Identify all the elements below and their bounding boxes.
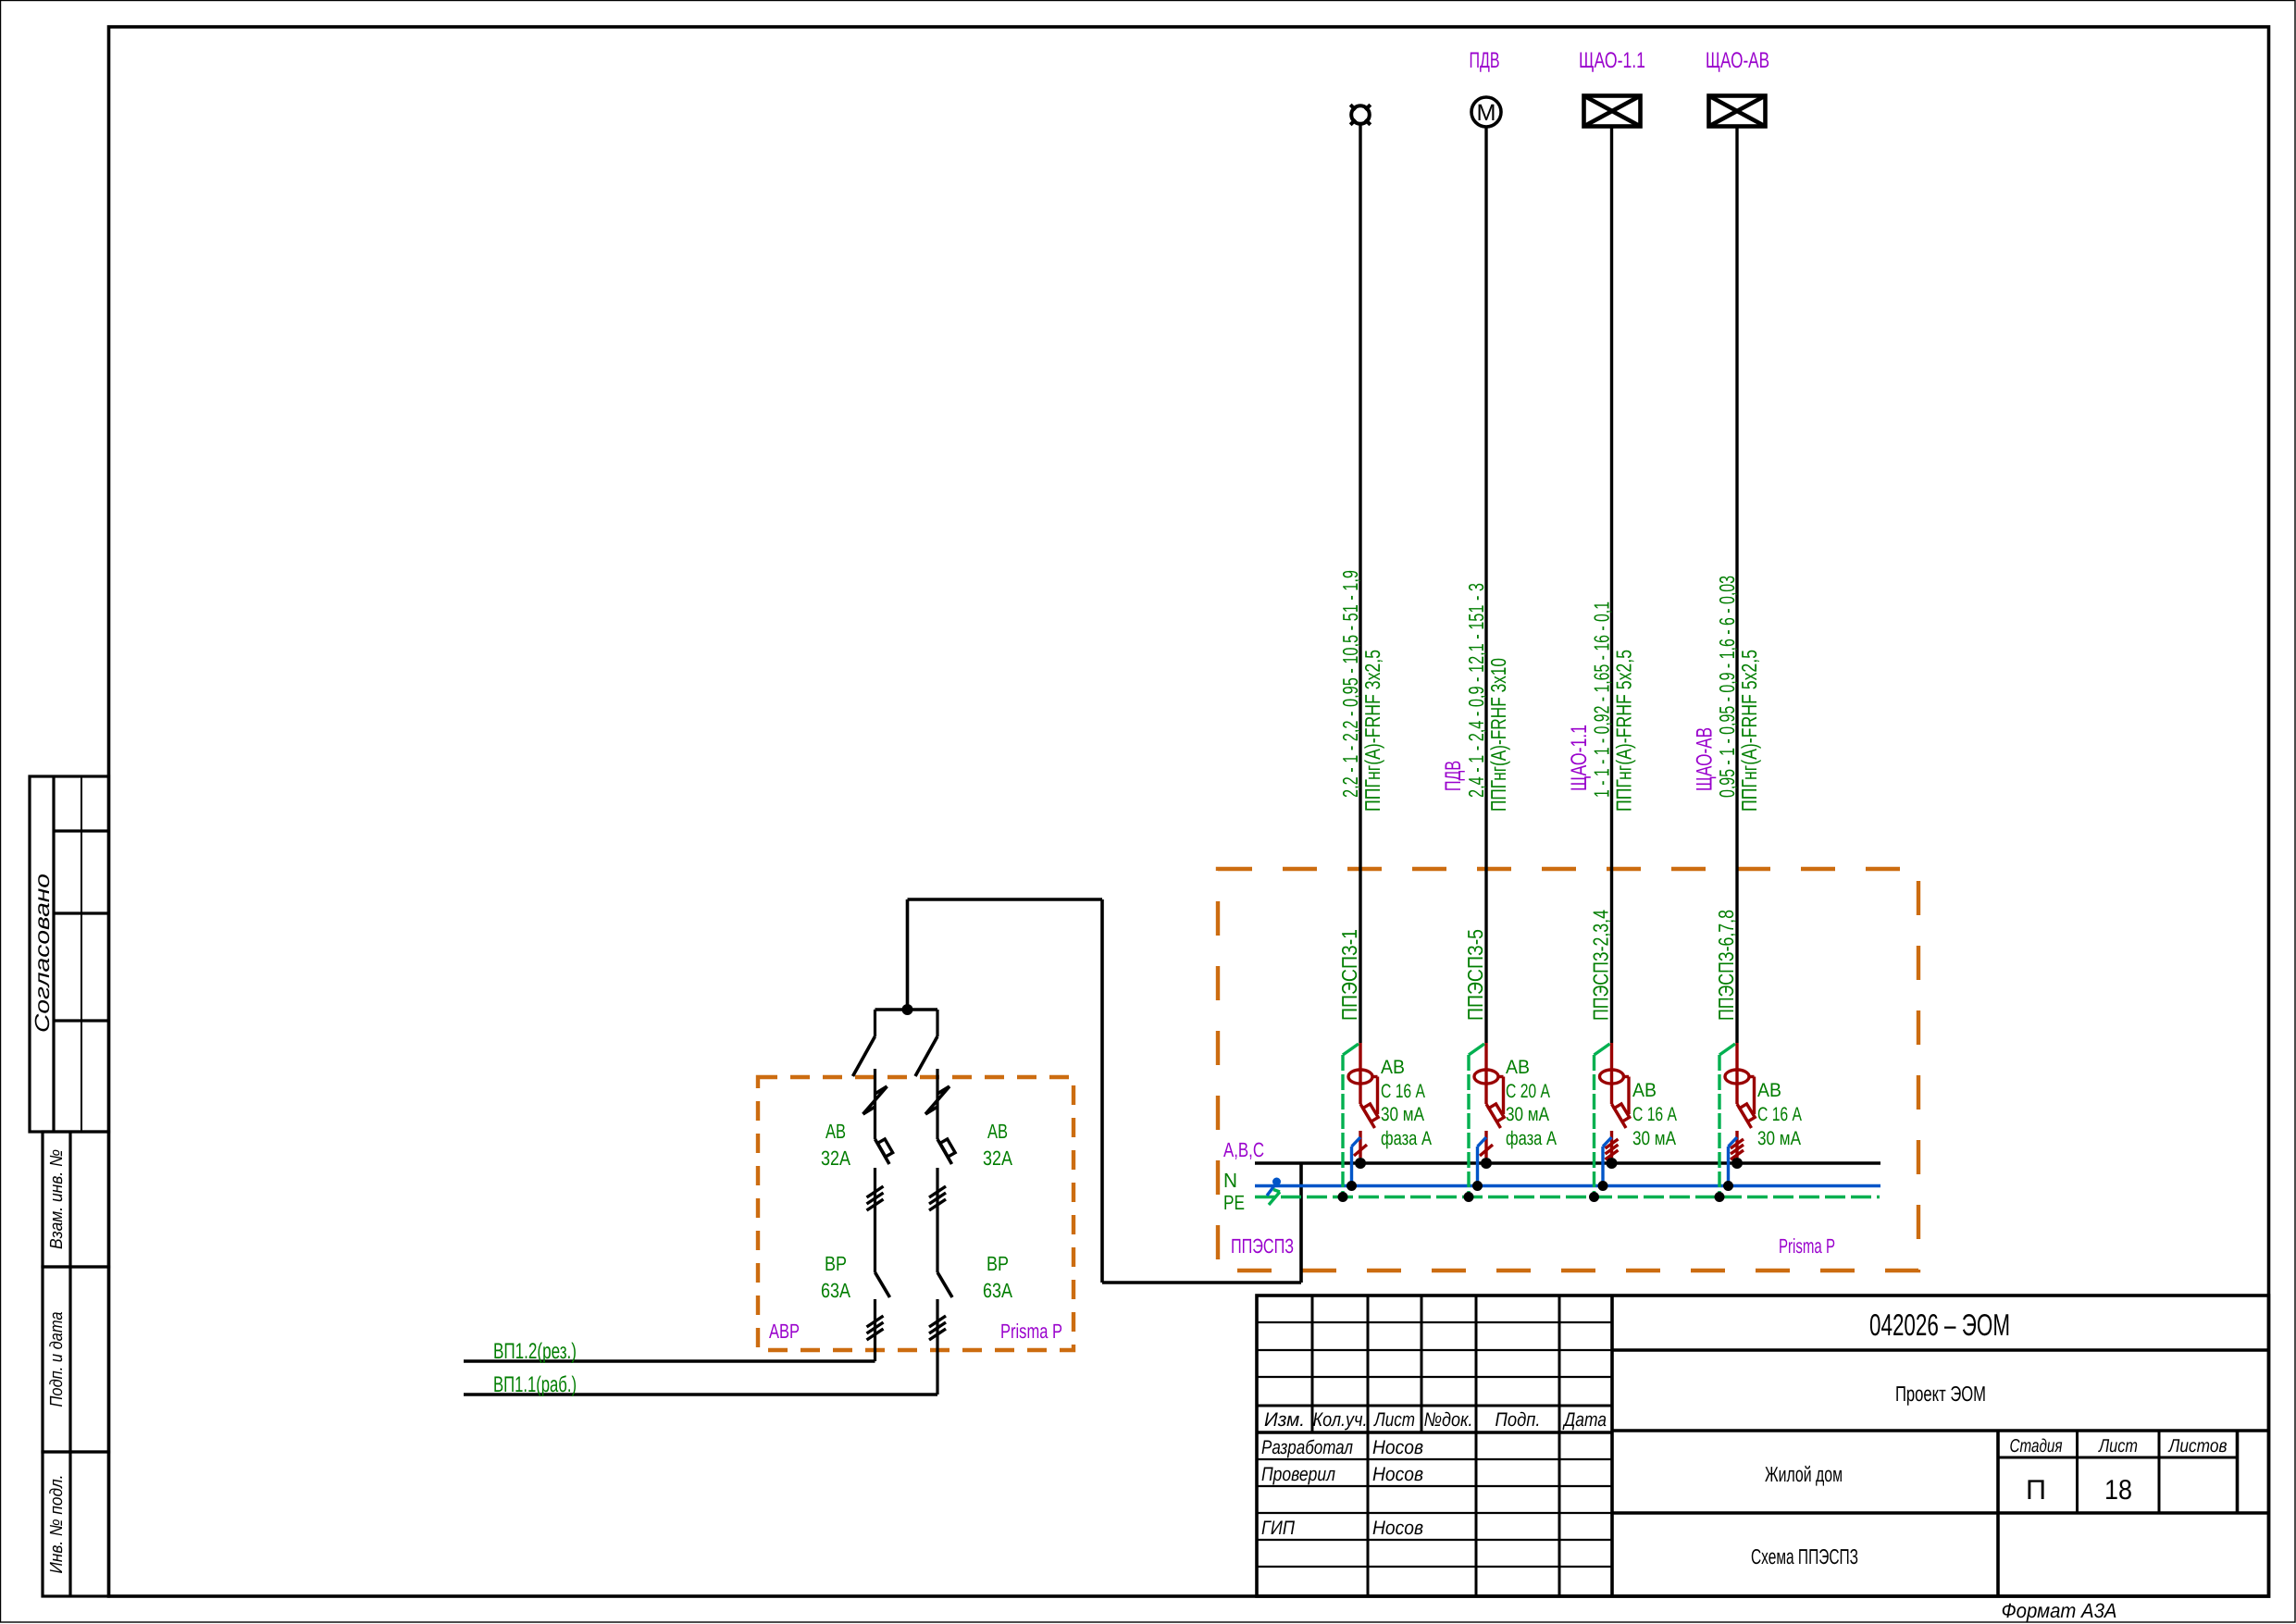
- svg-text:АВ: АВ: [1506, 1057, 1530, 1078]
- margin box Подп. и дата: [43, 1267, 109, 1452]
- wire feeder 3: [1610, 127, 1613, 1044]
- svg-text:С 20 А: С 20 А: [1506, 1081, 1550, 1102]
- svg-text:Взам. инв. №: Взам. инв. №: [47, 1149, 67, 1249]
- svg-text:ВП1.1(раб.): ВП1.1(раб.): [493, 1372, 577, 1397]
- svg-text:ЩАО-АВ: ЩАО-АВ: [1706, 48, 1769, 73]
- svg-text:63А: 63А: [983, 1279, 1012, 1302]
- svg-text:С 16 А: С 16 А: [1757, 1104, 1802, 1125]
- title block: [1257, 1295, 2269, 1596]
- switch-breaker branch 2 (АВ 32А + ВР 63А, working): [915, 1010, 955, 1395]
- svg-text:Стадия: Стадия: [2009, 1436, 2062, 1457]
- svg-text:ППЭСПЗ-6,7,8: ППЭСПЗ-6,7,8: [1714, 910, 1738, 1021]
- svg-text:1 - 1 - 1 - 0,92 - 1,65 - 16 -: 1 - 1 - 1 - 0,92 - 1,65 - 16 - 0,1: [1590, 601, 1614, 798]
- svg-text:Схема ППЭСПЗ: Схема ППЭСПЗ: [1751, 1544, 1858, 1568]
- svg-text:30 мА: 30 мА: [1506, 1104, 1549, 1125]
- svg-text:Проверил: Проверил: [1261, 1464, 1335, 1485]
- svg-text:АВР: АВР: [769, 1320, 800, 1343]
- bus PE (green dashed): [1255, 1196, 1880, 1198]
- svg-text:АВ: АВ: [1757, 1080, 1781, 1101]
- wire: АВР output up and over to ППЭСПЗ: [906, 899, 910, 1010]
- svg-text:Носов: Носов: [1372, 1518, 1423, 1539]
- RCBO QF3 (АВ C16А 30мА 3ph): [1589, 1043, 1630, 1202]
- wire feeder 4: [1735, 127, 1738, 1044]
- svg-text:Жилой дом: Жилой дом: [1765, 1462, 1843, 1486]
- svg-text:ППГнг(А)-FRHF 5х2,5: ППГнг(А)-FRHF 5х2,5: [1612, 650, 1636, 812]
- panel symbol ЩАО-АВ (crossed box): [1709, 96, 1766, 127]
- svg-text:С 16 А: С 16 А: [1632, 1104, 1677, 1125]
- title block texts: [1261, 1308, 2228, 1622]
- svg-text:Инв. № подл.: Инв. № подл.: [47, 1475, 67, 1574]
- svg-text:Лист: Лист: [1372, 1409, 1415, 1431]
- svg-text:АВ: АВ: [825, 1120, 846, 1143]
- svg-text:ППГнг(А)-FRHF 3х10: ППГнг(А)-FRHF 3х10: [1486, 658, 1510, 812]
- svg-text:АВ: АВ: [1632, 1080, 1657, 1101]
- svg-text:А,В,С: А,В,С: [1223, 1138, 1264, 1161]
- svg-text:2,2 - 1 - 2,2 - 0,95 - 10,5 -: 2,2 - 1 - 2,2 - 0,95 - 10,5 - 51 - 1,9: [1338, 570, 1362, 798]
- svg-text:63А: 63А: [821, 1279, 850, 1302]
- svg-text:Prisma P: Prisma P: [1779, 1234, 1835, 1258]
- svg-text:Носов: Носов: [1372, 1437, 1423, 1458]
- margin box Взам. инв. №: [43, 1132, 109, 1267]
- svg-text:ВП1.2(рез.): ВП1.2(рез.): [493, 1339, 577, 1364]
- svg-text:С 16 А: С 16 А: [1381, 1081, 1425, 1102]
- svg-text:Дата: Дата: [1562, 1409, 1607, 1431]
- svg-text:Разработал: Разработал: [1261, 1437, 1353, 1458]
- svg-text:Проект ЭОМ: Проект ЭОМ: [1895, 1382, 1986, 1406]
- RCBO QF2 (АВ C20А 30мА): [1464, 1043, 1505, 1202]
- svg-text:Формат А3А: Формат А3А: [2001, 1599, 2116, 1622]
- svg-text:PE: PE: [1223, 1191, 1245, 1214]
- svg-text:2,4 - 1 - 2,4 - 0,9 - 12,1 - 1: 2,4 - 1 - 2,4 - 0,9 - 12,1 - 151 - 3: [1464, 583, 1488, 798]
- svg-text:Prisma P: Prisma P: [1000, 1320, 1062, 1343]
- svg-text:Согласовано: Согласовано: [31, 874, 54, 1033]
- svg-text:ППЭСПЗ: ППЭСПЗ: [1231, 1234, 1294, 1258]
- N bus splice symbol: [1267, 1183, 1277, 1196]
- svg-text:ПДВ: ПДВ: [1441, 761, 1466, 791]
- motor symbol ПДВ: [1471, 97, 1501, 127]
- node: changeover tie bar: [875, 1008, 938, 1010]
- svg-text:№док.: №док.: [1423, 1409, 1472, 1431]
- svg-text:32А: 32А: [983, 1147, 1012, 1170]
- svg-text:30 мА: 30 мА: [1632, 1128, 1676, 1149]
- wire feeder 1: [1359, 124, 1361, 1043]
- svg-text:Подп. и дата: Подп. и дата: [47, 1312, 67, 1407]
- svg-text:Кол.уч.: Кол.уч.: [1312, 1409, 1367, 1431]
- svg-text:ЩАО-АВ: ЩАО-АВ: [1693, 727, 1718, 791]
- approval table (Согласовано): [30, 776, 109, 1132]
- margin box Инв. № подл.: [43, 1452, 109, 1596]
- svg-text:Изм.: Изм.: [1264, 1409, 1305, 1431]
- svg-text:ППЭСПЗ-2,3,4: ППЭСПЗ-2,3,4: [1589, 910, 1613, 1021]
- svg-text:М: М: [1476, 100, 1496, 126]
- svg-text:ППГнг(А)-FRHF 3х2,5: ППГнг(А)-FRHF 3х2,5: [1360, 650, 1384, 812]
- svg-text:30 мА: 30 мА: [1381, 1104, 1424, 1125]
- svg-text:Лист: Лист: [2097, 1436, 2138, 1457]
- svg-text:ЩАО-1.1: ЩАО-1.1: [1567, 725, 1592, 791]
- RCBO QF1 (АВ C16А 30мА): [1338, 1043, 1379, 1202]
- svg-text:ППГнг(А)-FRHF 5х2,5: ППГнг(А)-FRHF 5х2,5: [1737, 650, 1761, 812]
- PE bus splice symbol: [1269, 1192, 1280, 1205]
- RCBO QF4 (АВ C16А 30мА 3ph): [1715, 1043, 1756, 1202]
- wire feeder 2: [1484, 127, 1487, 1043]
- svg-text:ПДВ: ПДВ: [1469, 48, 1499, 73]
- svg-text:32А: 32А: [821, 1147, 850, 1170]
- panel symbol ЩАО-1.1 (crossed box): [1584, 96, 1641, 127]
- svg-text:30 мА: 30 мА: [1757, 1128, 1801, 1149]
- svg-text:ВР: ВР: [825, 1252, 847, 1275]
- svg-text:Подп.: Подп.: [1495, 1409, 1540, 1431]
- lamp symbol (emergency light fixture): [1350, 105, 1371, 125]
- wire ВП1.1 (working input): [464, 1393, 937, 1396]
- svg-text:П: П: [2026, 1475, 2046, 1506]
- bus А,В,С (black): [1255, 1161, 1880, 1164]
- bus N (blue): [1255, 1184, 1880, 1187]
- enclosure ППЭСПЗ (dashed): [1218, 869, 1918, 1271]
- svg-text:18: 18: [2104, 1475, 2132, 1506]
- switch-breaker branch 1 (АВ 32А + ВР 63А, reserve): [853, 1010, 893, 1361]
- svg-text:ВР: ВР: [987, 1252, 1009, 1275]
- svg-text:0,95 - 1 - 0,95 - 0,9 - 1,6 -: 0,95 - 1 - 0,95 - 0,9 - 1,6 - 6 - 0,03: [1715, 576, 1739, 798]
- svg-text:АВ: АВ: [987, 1120, 1008, 1143]
- enclosure АВР (dashed): [758, 1077, 1074, 1350]
- svg-text:042026 – ЭОМ: 042026 – ЭОМ: [1869, 1308, 2010, 1342]
- svg-text:ЩАО-1.1: ЩАО-1.1: [1579, 48, 1645, 73]
- svg-text:фаза А: фаза А: [1506, 1128, 1557, 1149]
- svg-text:ППЭСПЗ-5: ППЭСПЗ-5: [1463, 929, 1487, 1021]
- svg-text:ГИП: ГИП: [1261, 1518, 1296, 1539]
- svg-text:ППЭСПЗ-1: ППЭСПЗ-1: [1337, 929, 1361, 1021]
- svg-text:фаза А: фаза А: [1381, 1128, 1432, 1149]
- svg-text:АВ: АВ: [1381, 1057, 1405, 1078]
- wire ВП1.2 (reserve input): [464, 1359, 875, 1363]
- svg-text:N: N: [1223, 1169, 1237, 1192]
- svg-text:Листов: Листов: [2167, 1436, 2228, 1457]
- svg-text:Носов: Носов: [1372, 1464, 1423, 1485]
